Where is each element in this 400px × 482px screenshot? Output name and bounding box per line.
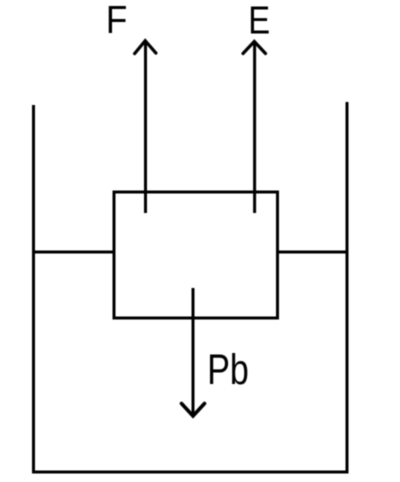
svg-text:Pb: Pb bbox=[207, 346, 249, 394]
label E bbox=[248, 0, 270, 42]
weight arrow Pb head bbox=[182, 404, 205, 417]
force arrow F shaft bbox=[144, 43, 147, 213]
force arrow F head bbox=[135, 41, 156, 54]
label F bbox=[106, 0, 127, 41]
container bottom bbox=[32, 471, 349, 474]
container left wall bbox=[32, 105, 35, 474]
label Pb bbox=[207, 346, 249, 394]
force arrow E shaft bbox=[253, 43, 256, 213]
weight arrow Pb shaft bbox=[192, 288, 195, 414]
block bbox=[114, 192, 278, 318]
force arrow E head bbox=[243, 42, 266, 54]
container right wall bbox=[346, 102, 349, 474]
svg-text:F: F bbox=[106, 0, 127, 41]
svg-text:E: E bbox=[248, 0, 270, 42]
water line right bbox=[276, 251, 349, 254]
water line left bbox=[32, 251, 116, 254]
